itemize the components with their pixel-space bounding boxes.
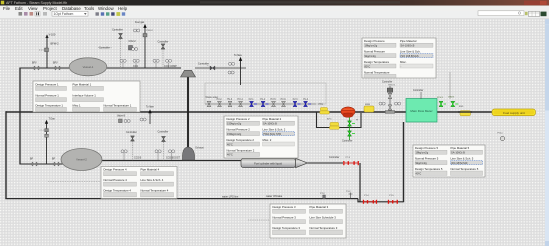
instrument pair metering left	[379, 102, 385, 105]
table T1 top right properties	[362, 38, 436, 78]
pipe fuel gas flare x145	[135, 21, 147, 68]
svg-text:Pipe Material 1: Pipe Material 1	[73, 82, 92, 86]
wire bottom segment to riser	[358, 199, 404, 202]
svg-text:Line Size & Sch. 5: Line Size & Sch. 5	[451, 157, 474, 161]
toolbar	[0, 11, 549, 19]
svg-text:File: File	[3, 6, 11, 11]
svg-text:-: -	[401, 65, 402, 68]
wire drop x360	[359, 163, 361, 202]
valve XV-3 blue	[293, 99, 301, 107]
svg-text:CO2 COMP: CO2 COMP	[164, 65, 177, 68]
wire vessel2 feed y164	[20, 163, 66, 165]
svg-text:HV-3: HV-3	[227, 99, 233, 101]
pump P-1 red	[341, 107, 355, 118]
table T5 right properties	[413, 145, 485, 177]
svg-text:40°C: 40°C	[227, 153, 233, 157]
wire flare header thin y68	[195, 67, 246, 69]
wire train1 pipe y68	[20, 67, 181, 69]
svg-text:HV-2: HV-2	[217, 99, 223, 101]
table T2 center properties	[224, 116, 298, 158]
svg-text:HV-4: HV-4	[238, 99, 244, 101]
svg-text:Design Pressure 5: Design Pressure 5	[415, 146, 438, 150]
vertical scrollbar	[545, 19, 549, 246]
controller CV-4 train2	[158, 130, 169, 160]
svg-text:Normal Temperature 1: Normal Temperature 1	[104, 103, 132, 107]
svg-text:XV-4: XV-4	[303, 99, 309, 101]
svg-text:Controller: Controller	[126, 131, 137, 134]
svg-text:BF: BF	[30, 157, 34, 160]
node station boundary box	[205, 83, 326, 104]
svg-text:Design Temperature 1: Design Temperature 1	[36, 103, 64, 107]
instrument pair flare2b	[228, 71, 234, 74]
instrument pair flare2a	[229, 62, 235, 65]
svg-text:PT-3: PT-3	[346, 157, 351, 159]
instrument pair near x150 flare	[140, 118, 146, 121]
svg-text:To flare: To flare	[234, 54, 243, 57]
svg-text:Project: Project	[43, 6, 57, 11]
valve BFV-2 on train1	[53, 62, 60, 71]
svg-text:XV-3: XV-3	[293, 99, 299, 101]
pipe T.Gas flare x46	[45, 118, 56, 164]
instrument pair t1d	[166, 59, 172, 68]
svg-text:Design Temperature 2: Design Temperature 2	[227, 138, 255, 142]
node label CO2	[133, 65, 139, 68]
valve on V-100 branch	[39, 48, 49, 52]
node yellow tag on bypass	[330, 122, 340, 129]
svg-text:MFM: MFM	[365, 104, 370, 106]
svg-text:MOV-1: MOV-1	[389, 84, 397, 86]
flow meter block Main Flow Meter	[406, 99, 437, 123]
table T3 bottom properties	[270, 204, 346, 238]
svg-text:85°C: 85°C	[365, 64, 371, 68]
node yellow tag after ESDV	[458, 111, 472, 116]
component TI-2	[129, 46, 138, 51]
valve HV-2	[217, 99, 223, 107]
pipe flare branch x150	[146, 105, 155, 124]
svg-text:Pipe Material 4: Pipe Material 4	[141, 168, 160, 172]
node label Waste water	[206, 96, 219, 99]
svg-text:Normal Temperature: Normal Temperature	[364, 70, 390, 74]
instrument PT-2 on bottom pipe	[320, 193, 325, 198]
svg-text:To flare: To flare	[146, 105, 155, 108]
svg-text:Line Size Schedule 3: Line Size Schedule 3	[310, 216, 337, 220]
svg-text:Vessel-1: Vessel-1	[83, 65, 94, 69]
svg-text:Controller: Controller	[158, 130, 169, 133]
svg-text:Tools: Tools	[84, 6, 95, 11]
svg-text:Line Size & Sch. 4: Line Size & Sch. 4	[141, 178, 164, 182]
svg-text:40°C: 40°C	[416, 171, 422, 175]
svg-text:Controller: Controller	[99, 47, 110, 50]
wire riser to flow meter x403.5	[403, 122, 405, 202]
svg-text:ESDV: ESDV	[449, 96, 455, 98]
valve on fuel gas line	[143, 34, 147, 37]
menu bar	[0, 6, 549, 12]
table T0 train1 properties	[33, 81, 140, 112]
valve cluster Valve-8	[117, 115, 130, 123]
svg-text:1Opt Fathom: 1Opt Fathom	[54, 12, 74, 16]
svg-text:CO2-2: CO2-2	[129, 40, 137, 43]
svg-text:BFW-2: BFW-2	[51, 42, 60, 46]
wire cylinder outlet y163	[307, 162, 343, 164]
valve control green under pump	[342, 118, 355, 143]
node yellow banner Fuel supply unit	[492, 109, 536, 116]
svg-text:HV-6: HV-6	[281, 99, 287, 101]
valve on T.Gas line	[40, 129, 49, 138]
svg-text:XV-1: XV-1	[249, 99, 255, 101]
svg-text:Design Temperature 3: Design Temperature 3	[273, 226, 301, 230]
svg-text:XV-2: XV-2	[260, 99, 266, 101]
svg-text:BFV: BFV	[53, 62, 58, 65]
node label CO2 COMP	[164, 65, 177, 68]
wire main supply pipe y112	[6, 111, 492, 113]
svg-text:Line Size & Sch.: Line Size & Sch.	[400, 50, 421, 54]
svg-text:Help: Help	[118, 6, 128, 11]
node label PSV	[319, 104, 324, 106]
svg-text:SA-106Gr.B: SA-106Gr.B	[451, 151, 465, 155]
title bar	[0, 0, 549, 6]
valve BF-2 on vessel2 feed	[52, 157, 59, 166]
valve BFV-1 on train1	[32, 62, 39, 71]
svg-text:Normal Temperature 3: Normal Temperature 3	[310, 226, 338, 230]
svg-text:BFV: BFV	[32, 62, 37, 65]
svg-text:150kg/cm2g: 150kg/cm2g	[227, 122, 242, 126]
valve ESDV-1 green	[449, 96, 464, 108]
svg-text:water Off-take: water Off-take	[266, 194, 283, 198]
instrument pair t2a	[121, 150, 127, 160]
svg-text:750A,SCH STD: 750A,SCH STD	[263, 132, 281, 136]
svg-text:Main Flow Meter: Main Flow Meter	[410, 109, 432, 113]
svg-text:Controller: Controller	[413, 89, 424, 92]
svg-text:HV-5: HV-5	[271, 99, 277, 101]
valve HV-6	[281, 99, 287, 107]
svg-text:9kg/cm2g: 9kg/cm2g	[365, 54, 377, 58]
svg-text:View: View	[28, 6, 38, 11]
svg-text:Exhaust: Exhaust	[196, 147, 205, 150]
metering station MOV-1	[382, 80, 396, 113]
wire valve row line y104	[205, 103, 316, 105]
svg-text:Controller: Controller	[382, 80, 393, 83]
fitting red tee pair on y163	[343, 157, 359, 165]
svg-text:water LPG line: water LPG line	[222, 195, 239, 198]
svg-text:Normal Pressure 5: Normal Pressure 5	[415, 157, 439, 161]
svg-text:Pipe Material 5: Pipe Material 5	[451, 146, 470, 150]
controller CV-1 train1	[112, 29, 123, 69]
node label CO2-2	[129, 40, 137, 43]
svg-text:AFG: AFG	[327, 118, 332, 121]
node label CO2 BOOST	[166, 157, 180, 160]
svg-text:Design Pressure 1: Design Pressure 1	[36, 82, 59, 86]
pipe bypass loop under pump	[317, 113, 362, 128]
pipe branch V-100 x47	[45, 34, 48, 68]
svg-text:AFT Fathom - Steam Supply Mode: AFT Fathom - Steam Supply Model.fth	[6, 1, 67, 5]
svg-text:Edit: Edit	[15, 6, 23, 11]
svg-text:Design Temperature: Design Temperature	[364, 60, 390, 64]
svg-text:9kg/cm2g: 9kg/cm2g	[416, 161, 428, 165]
svg-text:PSV-2: PSV-2	[147, 30, 154, 32]
svg-text:150kg/cm2g: 150kg/cm2g	[227, 132, 242, 136]
svg-text:(SO 168,8)SGS: (SO 168,8)SGS	[401, 54, 419, 58]
svg-text:Normal Temperature 2: Normal Temperature 2	[227, 148, 255, 152]
svg-text:Design Pressure: Design Pressure	[364, 39, 385, 43]
valve HV-4	[238, 99, 244, 107]
svg-text:Controller: Controller	[329, 156, 340, 159]
svg-text:Design Temperature 4: Design Temperature 4	[104, 189, 132, 193]
instrument pair t1c	[153, 59, 159, 68]
svg-text:Misc. 2: Misc. 2	[263, 138, 272, 142]
svg-text:18kg/cm2g: 18kg/cm2g	[365, 44, 378, 48]
instrument pair t2b	[155, 150, 161, 160]
svg-text:V-100: V-100	[49, 33, 56, 37]
svg-text:Fuel cylinder with liquid: Fuel cylinder with liquid	[254, 161, 282, 165]
vessel V-1	[69, 58, 107, 76]
svg-text:BF: BF	[52, 157, 56, 160]
svg-text:40°C: 40°C	[227, 142, 233, 146]
svg-text:Controller: Controller	[112, 29, 123, 32]
svg-text:Normal Pressure 1: Normal Pressure 1	[36, 94, 60, 98]
svg-text:Pipe Material: Pipe Material	[400, 39, 417, 43]
svg-text:SA-106Gr.B: SA-106Gr.B	[263, 122, 277, 126]
node label water off-take	[222, 194, 283, 198]
svg-text:Pipe Material 3: Pipe Material 3	[310, 205, 329, 209]
svg-text:Normal Pressure 3: Normal Pressure 3	[273, 216, 297, 220]
node label Cooler	[329, 156, 340, 159]
valve BF-1 on vessel2 feed	[30, 157, 37, 166]
controller CV-3 train2	[126, 131, 137, 161]
svg-text:CO2: CO2	[133, 65, 139, 68]
valve TV-2 on bottom pipe	[346, 191, 353, 199]
wire bottom return pipe y199	[5, 198, 358, 200]
pipe to flare x240.5	[234, 54, 243, 85]
svg-text:Valve-8: Valve-8	[117, 115, 126, 118]
svg-text:ESD: ESD	[459, 106, 464, 108]
valve XV-1 blue	[249, 99, 258, 107]
svg-text:Pipe Material 2: Pipe Material 2	[263, 117, 282, 121]
valve HV-1	[207, 101, 211, 106]
svg-text:Misc.: Misc.	[400, 60, 407, 64]
svg-text:Normal Pressure 4: Normal Pressure 4	[104, 178, 128, 182]
svg-text:Database: Database	[62, 6, 81, 11]
instrument pair metering right	[395, 102, 401, 105]
fitting red tee pair bottom B	[388, 195, 398, 204]
wire left downcomer x20	[19, 68, 21, 165]
svg-text:Controller: Controller	[198, 62, 209, 65]
wire dashed controller line to T3	[248, 219, 270, 221]
svg-text:Normal Pressure: Normal Pressure	[364, 50, 385, 54]
controller CV-2 train1	[158, 40, 169, 68]
svg-text:Misc 1: Misc 1	[73, 103, 82, 107]
fitting red tee pair bottom A	[363, 195, 377, 204]
controller label near vessel1	[98, 47, 112, 50]
svg-text:PSV: PSV	[319, 104, 324, 106]
valve XV-4 blue	[303, 99, 311, 107]
svg-text:Normal Pressure 2: Normal Pressure 2	[227, 128, 251, 132]
node yellow tag pair near PSV	[320, 108, 330, 115]
node yellow tag FE right of pump	[364, 104, 374, 112]
svg-text:Normal Temperature 5: Normal Temperature 5	[451, 167, 479, 171]
svg-text:18kg/cm2g: 18kg/cm2g	[416, 151, 429, 155]
svg-text:PG-1: PG-1	[498, 132, 504, 134]
compressor symbol bottom	[183, 147, 205, 161]
svg-text:Window: Window	[98, 6, 114, 11]
svg-text:PT-5: PT-5	[389, 195, 394, 197]
valve HV-5	[271, 99, 277, 107]
svg-text:Design Pressure 4: Design Pressure 4	[104, 168, 127, 172]
svg-text:Interface Volume 1: Interface Volume 1	[73, 94, 97, 98]
wire train2 pipe y160.5	[100, 160, 241, 162]
instrument pair t1b	[133, 59, 139, 68]
svg-text:T.Gas: T.Gas	[49, 118, 56, 121]
cylinder fuel cylinder with liquid	[241, 158, 308, 167]
svg-text:CO2 B: CO2 B	[134, 157, 142, 160]
svg-text:Design Pressure 2: Design Pressure 2	[227, 117, 250, 121]
svg-text:Controller: Controller	[158, 40, 169, 43]
svg-text:Fuel gas: Fuel gas	[135, 21, 145, 24]
node label V-100	[49, 33, 56, 37]
controller valve on flare header	[198, 62, 215, 70]
node label BFW-2	[51, 42, 60, 46]
wire left return riser x6	[5, 111, 7, 199]
svg-text:Vessel-2: Vessel-2	[76, 158, 87, 162]
instrument PI on flare line	[134, 29, 154, 32]
valve PCV-1 green	[437, 97, 446, 107]
valve XV-2 blue	[260, 99, 269, 107]
svg-text:Design Pressure 3: Design Pressure 3	[273, 205, 296, 209]
svg-text:CO2 BOOST: CO2 BOOST	[166, 157, 180, 160]
node label CO2 B	[134, 157, 142, 160]
svg-text:Normal Temperature 4: Normal Temperature 4	[141, 189, 169, 193]
instrument PG-1	[498, 132, 505, 140]
wire dashed controller line near vessel2	[48, 181, 101, 183]
compressor symbol top	[181, 70, 196, 77]
wire compressor drop x188	[187, 77, 189, 161]
table T4 train2 properties	[101, 167, 177, 199]
controller line to ESDV	[449, 72, 451, 99]
svg-text:Design Temperature 5: Design Temperature 5	[415, 167, 443, 171]
svg-text:SA-106Gr.B: SA-106Gr.B	[401, 44, 415, 48]
svg-text:PCV-1: PCV-1	[437, 97, 444, 99]
instrument pair t2c	[169, 150, 175, 160]
instrument pair PI/TI t1a	[120, 59, 126, 68]
svg-text:(3/4,18)Sch40: (3/4,18)Sch40	[451, 161, 468, 165]
svg-text:Controller: Controller	[342, 139, 353, 142]
svg-text:PT-4: PT-4	[364, 195, 369, 197]
svg-text:Fuel supply unit: Fuel supply unit	[503, 111, 525, 115]
svg-text:Line Size & Sch. 2: Line Size & Sch. 2	[263, 128, 286, 132]
valve HV-3	[227, 99, 233, 107]
vessel V-2	[61, 149, 102, 171]
controller line to flow meter	[413, 89, 424, 99]
